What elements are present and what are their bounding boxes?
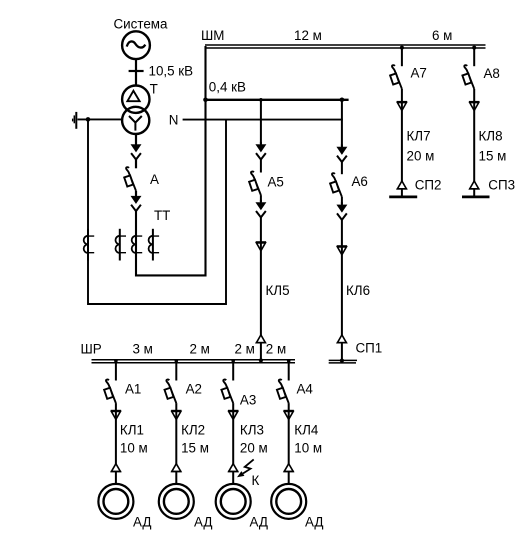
motor AD4 [271,484,306,519]
drawout contact below breaker A [131,194,141,212]
svg-text:ТТ: ТТ [154,208,170,223]
svg-text:КЛ4: КЛ4 [294,423,319,438]
svg-text:2 м: 2 м [235,342,255,357]
svg-text:15 м: 15 м [181,440,209,455]
svg-text:К: К [252,473,260,488]
wire A2 stub [175,360,177,381]
svg-text:АД: АД [250,515,268,530]
node bus 0,4 right [340,98,345,103]
breaker A1 [104,379,116,403]
node A3 tap [231,359,235,363]
wire A8 drop [473,48,475,66]
drawout contact below breaker A5 [256,200,266,218]
bus N [183,119,343,121]
svg-text:А4: А4 [297,382,314,397]
svg-text:2 м: 2 м [190,342,210,357]
wire [341,197,343,205]
svg-text:20 м: 20 м [240,440,268,455]
wire [175,403,177,411]
wire cable KL3 [232,411,234,464]
ground electrode [73,112,77,129]
breaker A3 [221,379,233,403]
distribution point SP2 bar [389,196,417,199]
current transformer TT phase right [149,229,160,261]
svg-text:КЛ6: КЛ6 [346,283,370,298]
wire [135,191,137,197]
wire [401,89,403,102]
drawout contact above breaker A5 [256,142,266,160]
motor AD3 [216,484,251,519]
drawout contact above breaker A6 [337,144,347,162]
cable head KL6 [337,246,347,255]
svg-text:СП2: СП2 [415,178,442,193]
svg-text:12 м: 12 м [294,28,322,43]
cable end KL1 [111,464,121,472]
wire [401,189,403,197]
svg-text:10 м: 10 м [120,440,148,455]
cable head KL7 [397,102,407,111]
cable head KL3 [228,411,238,420]
svg-text:2 м: 2 м [266,342,286,357]
distribution point SP1 bars [329,360,357,363]
bus ShR (double line) [92,360,296,363]
svg-text:КЛ3: КЛ3 [240,423,264,438]
breaker A4 [277,379,289,403]
wire [135,159,137,168]
node A4 tap [287,359,291,363]
cable end KL8 at SP3 [469,181,479,189]
svg-text:10 м: 10 м [294,440,322,455]
wire A3 stub [232,360,234,381]
cable end KL3 [228,464,238,472]
distribution point SP3 bar [462,196,490,199]
drawout contact below breaker A6 [337,202,347,220]
node neutral junction [86,117,91,122]
cable end KL2 [171,464,181,472]
short-circuit bolt K [237,459,254,477]
svg-text:КЛ5: КЛ5 [266,283,290,298]
svg-text:АД: АД [194,515,212,530]
AC source G (system) [122,31,150,59]
wire cable KL1 [115,411,117,464]
svg-text:КЛ1: КЛ1 [120,423,144,438]
wire [473,189,475,197]
svg-text:КЛ2: КЛ2 [181,423,205,438]
svg-text:СП3: СП3 [488,178,515,193]
wire neutral loop to N bus [88,119,226,304]
wire [115,403,117,411]
wire A4 stub [288,360,290,381]
breaker A5 [249,171,261,195]
drawout contact above breaker A [131,142,141,160]
wire cable KL5 [260,217,262,336]
breaker A [124,167,136,191]
current transformer TT neutral [84,229,95,261]
wire A1 stub [115,360,117,381]
svg-text:А8: А8 [484,66,500,81]
transformer T primary winding (delta) [122,86,149,113]
svg-text:АД: АД [305,515,323,530]
cable end KL5 at ShR [256,335,266,343]
svg-text:А5: А5 [268,175,284,190]
wire [260,343,262,361]
wire [115,472,117,485]
svg-text:АД: АД [133,515,151,530]
cable head KL4 [284,411,294,420]
wire [232,472,234,485]
motor AD1 [98,484,133,519]
breaker A2 [165,379,177,403]
svg-text:А7: А7 [411,66,427,81]
bus 0,4 kV [205,99,349,101]
node KL5 to ShR [259,358,263,362]
svg-text:20 м: 20 м [407,149,435,164]
svg-text:Т: Т [150,81,158,96]
wire A5 drop [260,100,262,145]
wire [260,159,262,172]
svg-text:КЛ8: КЛ8 [479,129,503,144]
wire [288,403,290,411]
cable head KL2 [171,411,181,420]
svg-text:А3: А3 [240,393,256,408]
wire A7 drop [401,48,403,66]
svg-text:СП1: СП1 [356,341,383,356]
motor AD2 [159,484,194,519]
node A8 tap on ShM [472,46,476,50]
wire [232,403,234,411]
svg-text:А2: А2 [186,382,202,397]
wire cable KL6 [341,220,343,336]
breaker A7 [390,65,402,89]
node A7 tap on ShM [400,46,404,50]
node A2 tap [175,359,179,363]
svg-text:Система: Система [114,17,168,32]
wire transformer to breaker A (top) [135,134,137,145]
cable end KL6 at SP1 [337,335,347,343]
svg-text:А1: А1 [125,382,141,397]
cable head KL1 [111,411,121,420]
node SP1 [340,359,344,363]
wire cable KL8 [473,102,475,182]
node A5 tap [259,98,263,102]
transformer T secondary winding (wye) [122,107,149,134]
svg-text:N: N [169,112,179,127]
wire [341,162,343,174]
wire cable KL2 [175,411,177,464]
cable end KL4 [284,464,294,472]
svg-text:КЛ7: КЛ7 [407,129,431,144]
svg-text:А6: А6 [352,174,368,189]
svg-text:6 м: 6 м [432,28,452,43]
wire cable KL7 [401,102,403,182]
wire [260,195,262,202]
svg-text:15 м: 15 м [479,149,507,164]
wire [473,89,475,102]
wire main riser to ShM bus [136,46,206,275]
current transformer TT phase left [116,229,127,261]
svg-text:10,5 кВ: 10,5 кВ [149,63,194,78]
voltage tick 10,5 kV [129,70,144,72]
node A1 tap [114,359,118,363]
wire [288,472,290,485]
neutral wire from transformer to ground [78,118,123,120]
wire cable KL4 [288,411,290,464]
wire [341,343,343,362]
cable head KL5 [256,242,266,251]
svg-text:ШР: ШР [81,342,102,357]
cable head KL8 [469,102,479,111]
svg-text:0,4 кВ: 0,4 кВ [209,79,246,94]
svg-text:3 м: 3 м [133,342,153,357]
bus ShM (double line) [205,45,486,48]
wire A6 drop [341,100,343,148]
current transformer TT phase middle [132,229,143,261]
cable end KL7 at SP2 [397,181,407,189]
breaker A8 [462,65,474,89]
svg-text:А: А [150,172,159,187]
node bus 0,4 left [203,98,208,103]
breaker A6 [330,173,342,197]
wire source to transformer [135,59,137,86]
wire [175,472,177,485]
svg-text:ШМ: ШМ [201,28,224,43]
